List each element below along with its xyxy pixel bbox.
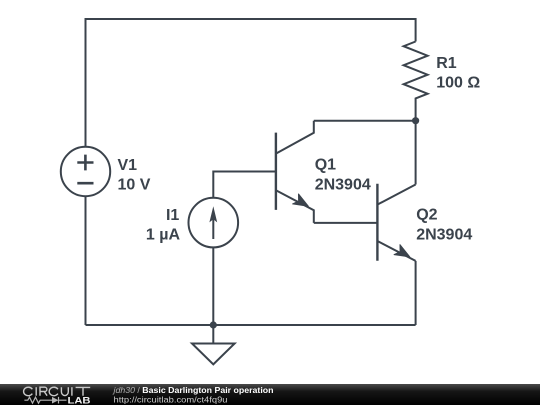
svg-text:Q1: Q1 <box>315 157 336 174</box>
CircuitLab logo schematic line with resistor and diode <box>24 397 66 404</box>
svg-text:R1: R1 <box>436 55 457 72</box>
svg-text:2N3904: 2N3904 <box>315 176 371 193</box>
wire V1 bottom down to bottom rail <box>85 196 87 325</box>
wire Q2 emitter down to bottom rail <box>415 261 417 325</box>
wire I1 top to Q1 base <box>213 172 276 198</box>
wire bottom rail <box>86 324 416 326</box>
wire Q2 collector up to node A <box>415 121 417 185</box>
node A junction dot <box>412 117 419 124</box>
svg-text:I1: I1 <box>166 207 179 224</box>
svg-text:2N3904: 2N3904 <box>416 227 472 244</box>
svg-text:100 Ω: 100 Ω <box>436 75 480 92</box>
svg-text:Q2: Q2 <box>416 207 437 224</box>
node ground junction dot <box>210 321 217 328</box>
wire top loop: V1 top up, across, down to R1 <box>86 19 416 147</box>
wire I1 bottom to bottom rail <box>212 247 214 325</box>
current source I1 <box>189 198 239 248</box>
footer bar <box>0 384 540 405</box>
wire Q1 emitter to Q2 base <box>314 222 378 224</box>
voltage source V1 <box>61 147 110 196</box>
svg-text:1 µA: 1 µA <box>146 227 181 244</box>
transistor Q1 <box>276 121 314 223</box>
resistor R1 <box>404 42 428 121</box>
transistor Q2 <box>377 184 415 261</box>
svg-text:V1: V1 <box>118 157 138 174</box>
svg-text:10 V: 10 V <box>118 176 151 193</box>
svg-text:http://circuitlab.com/ct4fq9u: http://circuitlab.com/ct4fq9u <box>114 394 228 404</box>
ground <box>192 325 235 364</box>
wire Q1 collector to node A <box>314 120 416 122</box>
CircuitLab logo wordmark CIRCUIT (stroked letterforms) <box>24 387 91 396</box>
svg-text:LAB: LAB <box>68 395 91 405</box>
